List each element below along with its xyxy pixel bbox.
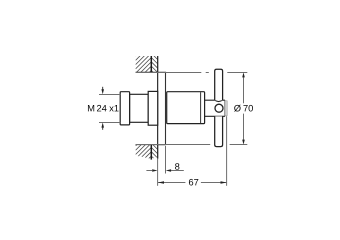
dia70 dimension line <box>243 77 245 140</box>
dim 67 line left segment <box>158 182 186 184</box>
sleeve section hatching (upper block, right part) <box>151 53 157 77</box>
wall edge under upper hatch <box>136 71 158 73</box>
dia70 top extension line <box>136 72 248 74</box>
collar C <box>148 91 158 125</box>
wall section hatching (upper block, left part) <box>136 40 152 103</box>
label 67 <box>189 179 198 186</box>
extension line below wall face <box>157 159 159 186</box>
wall face line <box>157 56 159 159</box>
sleeve section hatching (lower block, right part) <box>151 139 157 163</box>
collar A <box>120 92 129 125</box>
M24x1 extension lines <box>99 95 120 123</box>
label 8 <box>175 163 179 170</box>
dim 67 arrow left <box>158 181 164 184</box>
handle hub bottom edge <box>205 115 225 117</box>
wall section hatching (lower block, left part) <box>136 130 152 189</box>
dim 67 arrow right <box>221 181 227 184</box>
handle hub top edge <box>205 100 225 101</box>
dim 8 right arrow <box>166 169 184 172</box>
escutcheon (wall plate) <box>158 72 166 144</box>
dia70 bottom extension line <box>136 144 248 146</box>
concealed sleeve edge (bold line in lower hatch) <box>150 145 152 160</box>
valve body cylinder <box>167 92 205 124</box>
cross-handle bar (lower part) <box>215 116 223 146</box>
wall edge over lower hatch <box>136 144 158 146</box>
dim 67 line right segment <box>201 182 227 184</box>
escutcheon front extension line <box>165 146 167 174</box>
dim 8 left arrow <box>146 169 157 172</box>
label M24x1 <box>88 105 119 111</box>
concealed sleeve edge (bold line in upper hatch) <box>150 56 152 72</box>
hub front extension line <box>226 116 228 186</box>
dia70 arrow down <box>242 140 245 145</box>
valve body front chamfer line <box>200 92 202 123</box>
cross-handle bar (upper part) <box>215 69 223 100</box>
M24x1 arrow top <box>101 87 104 95</box>
hub front edge <box>224 100 226 116</box>
handle screw circle <box>215 104 223 112</box>
dia70 arrow up <box>242 72 245 77</box>
M24x1 arrow bottom <box>101 123 104 130</box>
thread section B <box>130 94 149 122</box>
hub front cap (grey) <box>225 101 227 116</box>
label dia 70 <box>234 105 253 112</box>
